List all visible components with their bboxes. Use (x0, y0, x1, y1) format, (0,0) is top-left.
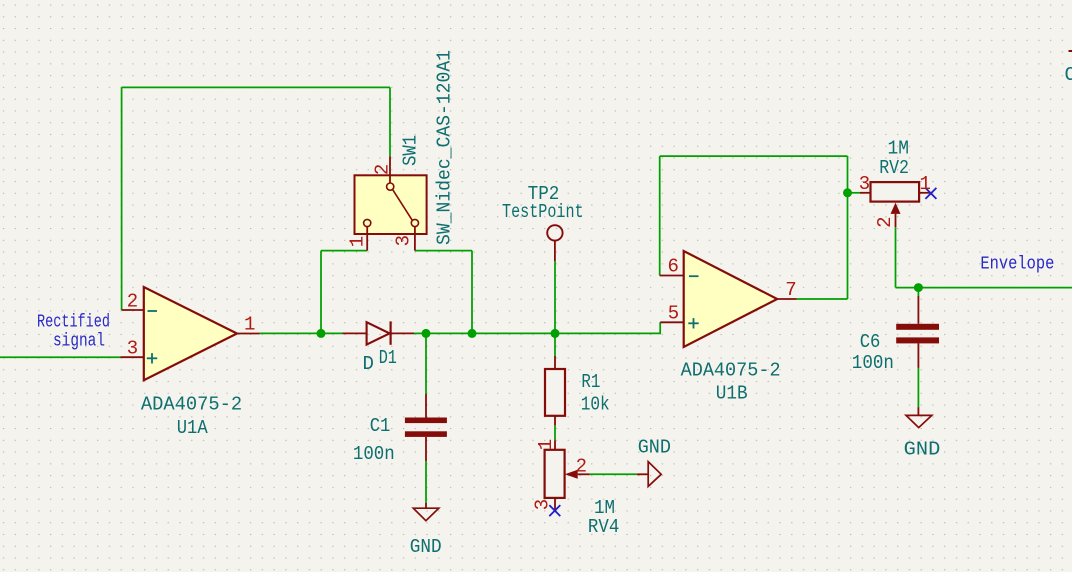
svg-text:2: 2 (371, 164, 393, 175)
wire SW1 pin3 branch horizontal (415, 250, 472, 252)
svg-text:D: D (363, 353, 374, 375)
wire junction F to Envelope edge (918, 287, 1072, 289)
wire U1A feedback top horizontal (122, 86, 390, 88)
wire RV2 wiper down (895, 227, 897, 287)
svg-text:1: 1 (535, 439, 557, 450)
svg-text:C1: C1 (370, 415, 391, 437)
resistor R1 (545, 356, 565, 425)
node junction F RV2 wiper / C6 / Envelope (914, 283, 923, 292)
potentiometer RV4 (545, 440, 590, 510)
svg-text:7: 7 (785, 279, 796, 301)
svg-text:Envelope: Envelope (980, 255, 1054, 275)
svg-text:C6: C6 (860, 331, 881, 353)
label Rectified signal (37, 312, 110, 351)
test point TP2 (547, 225, 562, 261)
svg-text:GND: GND (410, 536, 442, 558)
wire U1A feedback left vertical (121, 87, 123, 310)
svg-text:RV4: RV4 (588, 516, 619, 538)
wire junction C to junction D (472, 332, 555, 334)
wire junction B to junction C (426, 332, 472, 334)
wire SW1 pin3 branch vertical (471, 251, 473, 334)
diode D1 (343, 321, 415, 344)
wire U1B feedback top horizontal (660, 155, 848, 157)
svg-text:1: 1 (244, 314, 255, 336)
svg-text:R1: R1 (581, 371, 600, 393)
svg-text:U1B: U1B (716, 383, 748, 405)
svg-text:1: 1 (920, 173, 931, 195)
ground below C6 (906, 407, 932, 428)
svg-text:TestPoint: TestPoint (502, 201, 584, 223)
op-amp U1A (121, 287, 260, 380)
wire C6 to GND (917, 368, 919, 407)
wire R1 to RV4 (554, 425, 556, 440)
wire junction D down to R1 (554, 333, 556, 356)
node junction D TP2 / R1 (551, 329, 560, 338)
svg-text:RV2: RV2 (879, 157, 909, 179)
svg-text:3: 3 (127, 338, 138, 360)
node junction B diode cathode / C1 (422, 329, 431, 338)
svg-text:U1A: U1A (177, 417, 209, 439)
svg-text:Rectified: Rectified (37, 312, 110, 332)
partial component at top right edge (1069, 50, 1072, 52)
potentiometer RV2 (860, 182, 931, 227)
wire junction E to RV2 pin3 (848, 192, 861, 194)
ground right of RV4 (637, 462, 661, 487)
svg-text:SW1: SW1 (400, 135, 422, 166)
svg-text:ADA4075-2: ADA4075-2 (681, 360, 781, 382)
svg-text:ADA4075-2: ADA4075-2 (141, 393, 242, 415)
svg-text:100n: 100n (852, 352, 894, 374)
wire SW1 pin2 drop (389, 87, 391, 156)
op-amp U1B (660, 251, 797, 347)
wire U1B feedback left vertical (659, 156, 661, 275)
svg-text:D1: D1 (379, 347, 397, 369)
svg-text:3: 3 (393, 235, 415, 246)
wire SW1 pin1 branch horizontal (321, 250, 367, 252)
node junction C SW1 pin3 branch (468, 329, 477, 338)
svg-text:2: 2 (576, 455, 587, 477)
svg-text:5: 5 (668, 302, 679, 324)
wire junction F down to C6 (917, 288, 919, 296)
wire junction A to D1 anode (321, 332, 343, 334)
wire junction B down to C1 (425, 333, 427, 394)
wire C1 to GND (425, 461, 427, 503)
wire U1B feedback right vertical (847, 156, 849, 299)
node junction E feedback / RV2 pin3 (843, 188, 852, 197)
svg-text:100n: 100n (353, 443, 395, 465)
switch SW1 (355, 156, 427, 250)
svg-text:2: 2 (127, 290, 138, 312)
svg-text:signal: signal (53, 331, 105, 351)
svg-text:GND: GND (904, 439, 941, 461)
wire TP2 down to junction D (554, 261, 556, 333)
wire RV4 wiper to GND symbol (590, 473, 637, 475)
svg-text:C: C (1065, 64, 1072, 86)
wire junction D to U1B pin5 jog (555, 322, 660, 333)
wire U1B output to feedback (797, 298, 848, 300)
svg-text:10k: 10k (581, 394, 610, 416)
svg-text:6: 6 (668, 256, 679, 278)
node junction A op-amp output / diode / SW1 pin1 (317, 329, 326, 338)
svg-text:SW_Nidec_CAS-120A1: SW_Nidec_CAS-120A1 (433, 50, 455, 245)
svg-text:GND: GND (638, 436, 671, 458)
no-connect X on RV4 pin3 (549, 505, 560, 516)
wire D1 cathode to junction B (414, 332, 426, 334)
svg-text:3: 3 (532, 499, 554, 510)
wire input to U1A pin3 (0, 356, 121, 358)
wire U1A output to junction A (260, 332, 322, 334)
no-connect X on RV2 pin1 (925, 188, 936, 199)
svg-text:3: 3 (859, 173, 870, 195)
svg-text:2: 2 (874, 216, 896, 227)
wire wiper corner to junction F (896, 287, 919, 289)
capacitor C1 (405, 394, 447, 461)
svg-text:1: 1 (346, 236, 368, 247)
wire SW1 pin1 branch vertical (320, 251, 322, 334)
capacitor C6 (896, 296, 939, 368)
ground below C1 (413, 503, 439, 521)
